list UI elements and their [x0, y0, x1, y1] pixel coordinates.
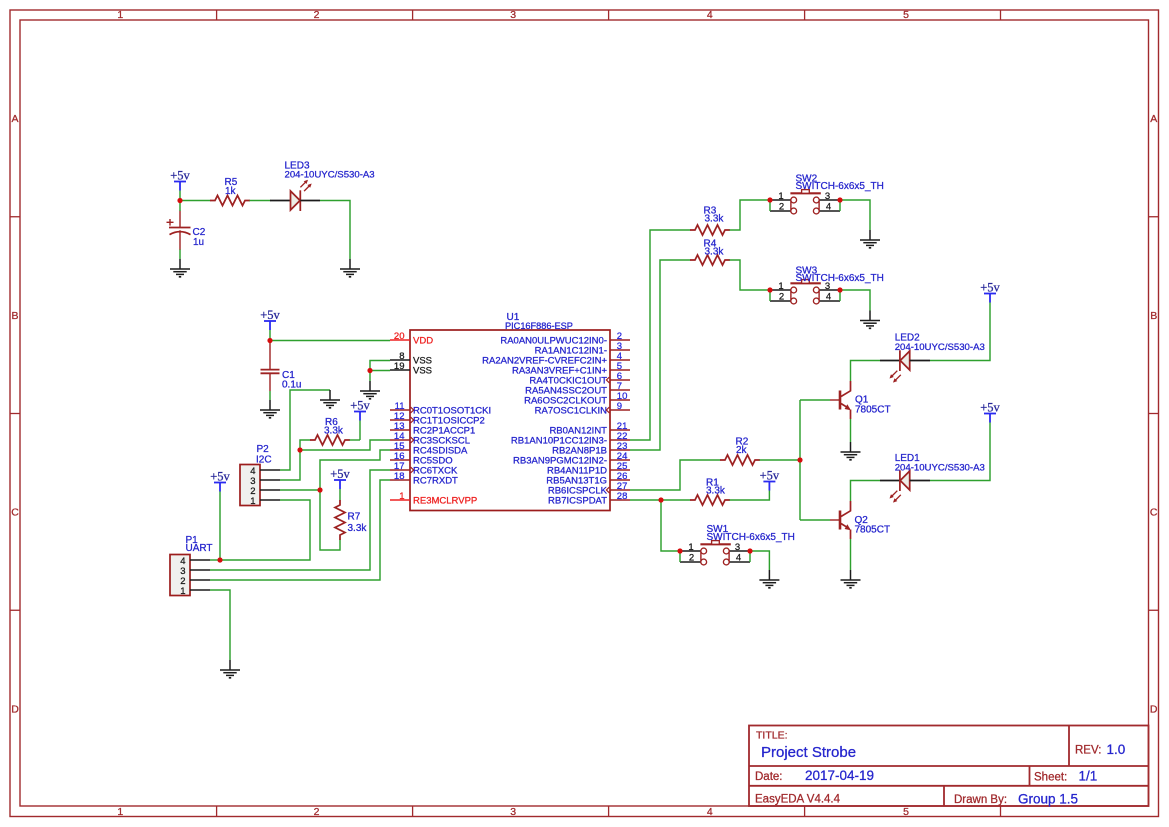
U1 pin 26 RB5AN13T1G — [546, 471, 630, 486]
wire LED3 to ground — [320, 201, 350, 260]
label P2 — [256, 444, 272, 466]
wire R6 to +5v — [350, 439, 361, 441]
U1 pin 1 RE3MCLRVPP — [390, 491, 477, 506]
label LED2 — [895, 333, 985, 354]
wire U1 pin 19 VSS — [370, 370, 390, 372]
U1 pin 10 RA6OSC2CLKOUT — [524, 391, 630, 406]
svg-text:3.3k: 3.3k — [705, 247, 725, 258]
svg-text:SWITCH-6x6x5_TH: SWITCH-6x6x5_TH — [796, 181, 884, 192]
svg-text:REV:: REV: — [1075, 745, 1101, 757]
wire +5v stem to node — [179, 191, 181, 201]
svg-text:RE3MCLRVPP: RE3MCLRVPP — [413, 495, 477, 506]
svg-text:+5v: +5v — [170, 169, 190, 183]
svg-text:204-10UYC/S530-A3: 204-10UYC/S530-A3 — [285, 170, 375, 181]
U1 pin 4 RA2AN2VREF-CVREFC2IN+ — [482, 351, 630, 366]
power flag +5v (LED2) — [980, 281, 1000, 303]
wire SW3 to ground — [840, 290, 870, 311]
wire P1 pin3 TX to U1 pin 17 — [210, 470, 390, 570]
svg-text:1: 1 — [117, 9, 123, 21]
wire node down to SW1 — [661, 500, 680, 551]
svg-text:3.3k: 3.3k — [348, 523, 368, 534]
U1 pin 7 RA5AN4SSC2OUT — [525, 381, 630, 396]
svg-text:204-10UYC/S530-A3: 204-10UYC/S530-A3 — [895, 462, 985, 473]
wire SW1 pins 1-2 — [679, 551, 681, 562]
ground (C2) — [170, 259, 190, 277]
label LED3 — [285, 160, 375, 180]
svg-text:EasyEDA V4.4.4: EasyEDA V4.4.4 — [755, 794, 841, 806]
svg-text:1k: 1k — [225, 186, 237, 197]
svg-text:19: 19 — [394, 361, 405, 372]
U1 pin 18 RC7RXDT — [390, 471, 458, 486]
wire R4 to SW3 — [730, 260, 771, 290]
capacitor C1 0.1u — [261, 341, 302, 392]
junction VSS — [367, 368, 372, 373]
wire U1 pin27 to R2 — [630, 460, 721, 490]
power flag +5v (P1/P2 supply) — [210, 470, 230, 492]
U1 pin 13 RC2P1ACCP1 — [390, 421, 475, 436]
ground (SW3) — [860, 311, 880, 329]
svg-text:D: D — [11, 703, 19, 715]
U1 pin 22 RB1AN10P1CC12IN3- — [511, 431, 630, 446]
wire P1 pin2 RX to U1 pin 18 — [210, 480, 390, 580]
wire R2 to base bus — [760, 459, 801, 461]
svg-text:C: C — [11, 507, 19, 519]
junction SDA node — [317, 487, 322, 492]
wire node to R1 — [661, 499, 691, 501]
frame row labels — [11, 113, 1158, 715]
resistor R6 3.3k — [310, 417, 350, 445]
svg-text:1: 1 — [688, 542, 693, 553]
wire R1 to +5v — [730, 490, 770, 500]
svg-text:TITLE:: TITLE: — [756, 730, 788, 742]
svg-text:2k: 2k — [736, 445, 748, 456]
power flag +5v (R1) — [760, 469, 780, 491]
label LED1 — [895, 453, 985, 473]
junction node +5v/R5/C2 — [177, 198, 182, 203]
junction SW2 pin1 — [767, 197, 772, 202]
power flag +5v (R7) — [330, 467, 350, 489]
U1 pin 17 RC6TXCK — [390, 461, 458, 476]
junction SW2 pin3 — [837, 197, 842, 202]
wire +5v stem R6 — [359, 421, 361, 441]
svg-text:3.3k: 3.3k — [324, 426, 344, 437]
svg-text:1: 1 — [250, 496, 255, 507]
wire SW2 to ground — [840, 200, 870, 230]
junction SW3 pin3 — [837, 287, 842, 292]
wire +5v down to P1 node — [219, 492, 221, 561]
power flag +5v (LED1) — [980, 401, 1000, 423]
power flag +5v (R5/C2 net) — [170, 169, 190, 191]
U1 pin 6 RA4T0CKIC1OUT — [529, 371, 630, 386]
switch SW1 SWITCH-6x6x5_TH — [680, 524, 795, 565]
U1 pin 20 VDD — [390, 331, 433, 346]
wire C2 to ground — [179, 250, 181, 260]
wire Q2 collector to LED1 — [851, 481, 881, 502]
junction SW1 pin1 — [677, 548, 682, 553]
svg-text:0.1u: 0.1u — [282, 380, 301, 391]
svg-text:7805CT: 7805CT — [855, 404, 891, 415]
wire P2 pin3 SCL up — [280, 450, 300, 480]
svg-text:I2C: I2C — [256, 455, 272, 466]
LED LED3 204-10UYC/S530-A3 — [270, 180, 320, 211]
U1 pin 19 VSS — [390, 361, 432, 376]
svg-text:9: 9 — [617, 401, 622, 412]
svg-text:B: B — [1150, 310, 1157, 322]
wire to Q1 base — [800, 399, 830, 401]
resistor R7 3.3k — [335, 500, 367, 540]
label Q1 — [855, 395, 891, 416]
svg-text:3.3k: 3.3k — [705, 213, 725, 224]
wire SW3 pins 3-4 — [839, 290, 841, 301]
svg-text:C: C — [1150, 507, 1158, 519]
wire SW2 pins 1-2 — [769, 200, 771, 211]
LED LED2 204-10UYC/S530-A3 — [880, 350, 930, 382]
svg-text:B: B — [11, 310, 18, 322]
wire SW3 pins 1-2 — [769, 290, 771, 301]
svg-text:A: A — [11, 113, 18, 125]
wire P2 pin4 to ground — [280, 390, 330, 470]
ground (Q2) — [841, 570, 861, 588]
svg-text:204-10UYC/S530-A3: 204-10UYC/S530-A3 — [895, 342, 985, 353]
wire Q1 collector to LED2 — [851, 361, 881, 382]
wire U1 pin 8 VSS — [370, 361, 390, 371]
wire Q1 emitter to ground — [850, 419, 852, 442]
wire U1 pin28 to node — [630, 499, 661, 501]
ground (LED3) — [340, 259, 360, 277]
LED LED1 204-10UYC/S530-A3 — [880, 470, 930, 502]
svg-text:1: 1 — [117, 806, 123, 818]
IC U1 PIC16F886-ESP body — [410, 330, 610, 511]
transistor Q1 7805CT — [830, 381, 851, 419]
resistor R2 2k — [720, 437, 760, 466]
resistor R4 3.3k — [690, 239, 730, 266]
U1 pin 2 RA0AN0ULPWUC12IN0- — [500, 331, 630, 346]
wire +5v to VDD node — [269, 330, 271, 341]
U1 pin 9 RA7OSC1CLKIN — [535, 401, 630, 416]
svg-text:RB7ICSPDAT: RB7ICSPDAT — [548, 495, 607, 506]
svg-text:7805CT: 7805CT — [855, 525, 891, 536]
svg-text:Date:: Date: — [755, 771, 783, 783]
U1 pin 21 RB0AN12INT — [549, 421, 630, 436]
wire LED1 to +5v — [930, 423, 990, 481]
U1 pin 14 RC3SCKSCL — [390, 431, 470, 446]
wire SDA node to R7 — [320, 490, 340, 550]
junction base bus — [797, 457, 802, 462]
ground (C1) — [260, 400, 280, 418]
frame column ticks — [217, 10, 1001, 817]
svg-text:2: 2 — [779, 292, 784, 303]
svg-text:SWITCH-6x6x5_TH: SWITCH-6x6x5_TH — [796, 273, 884, 284]
junction node VDD/C1 — [267, 338, 272, 343]
wire R5 to LED3 — [250, 200, 271, 202]
U1 pin 8 VSS — [390, 351, 432, 366]
U1 pin 24 RB3AN9PGMC12IN2- — [513, 451, 630, 466]
svg-text:UART: UART — [186, 543, 213, 554]
title block — [749, 726, 1149, 807]
capacitor C2 1u (polarized) — [167, 211, 206, 251]
svg-text:1: 1 — [180, 586, 185, 597]
svg-text:A: A — [1150, 113, 1157, 125]
wire C1 to ground — [269, 391, 271, 400]
wire node to C2 — [179, 201, 181, 212]
wire U1 pin22 to R3 — [630, 230, 691, 440]
power flag +5v (VDD) — [260, 308, 280, 330]
junction SCL node — [297, 447, 302, 452]
svg-text:3: 3 — [510, 806, 516, 818]
svg-text:1.0: 1.0 — [1107, 742, 1126, 757]
wire SCL node to U1 pin 14 — [300, 440, 390, 450]
ground (VSS) — [360, 381, 380, 399]
svg-text:28: 28 — [617, 491, 628, 502]
label U1 — [505, 312, 573, 331]
svg-text:18: 18 — [394, 471, 405, 482]
svg-text:4: 4 — [707, 9, 713, 21]
U1 pin 16 RC5SDO — [390, 451, 453, 466]
svg-text:4: 4 — [826, 202, 831, 213]
svg-text:R7: R7 — [348, 512, 361, 523]
svg-text:20: 20 — [394, 331, 405, 342]
connector P1 UART header — [170, 555, 210, 598]
svg-text:VSS: VSS — [413, 365, 432, 376]
U1 pin 27 RB6ICSPCLK — [548, 481, 630, 496]
wire SW1 pins 3-4 — [749, 551, 751, 562]
svg-text:3: 3 — [825, 191, 830, 202]
ground (Q1) — [841, 442, 861, 460]
wire to Q2 base — [800, 519, 830, 521]
svg-text:1: 1 — [399, 491, 404, 502]
wire P2 pin2 SDA — [280, 489, 320, 491]
svg-text:1: 1 — [778, 191, 783, 202]
svg-text:2: 2 — [314, 806, 320, 818]
svg-text:5: 5 — [903, 9, 909, 21]
junction P1 pin4 node — [217, 557, 222, 562]
U1 pin 5 RA3AN3VREF+C1IN+ — [512, 361, 630, 376]
wire base bus vertical — [799, 400, 801, 520]
U1 pin 12 RC1T1OSICCP2 — [390, 411, 485, 426]
junction SW1 pin3 — [747, 548, 752, 553]
svg-text:2: 2 — [779, 202, 784, 213]
svg-text:5: 5 — [903, 806, 909, 818]
svg-text:Group 1.5: Group 1.5 — [1018, 792, 1078, 807]
svg-text:PIC16F886-ESP: PIC16F886-ESP — [505, 321, 573, 331]
resistor R1 3.3k — [690, 477, 730, 505]
wire SW2 pins 3-4 — [839, 200, 841, 211]
svg-text:RC7RXDT: RC7RXDT — [413, 475, 458, 486]
svg-text:1: 1 — [778, 281, 783, 292]
wire U1 pin23 to R4 — [630, 260, 691, 450]
connector P2 I2C header — [240, 465, 280, 508]
frame column labels — [117, 9, 909, 818]
switch SW3 SWITCH-6x6x5_TH — [770, 265, 884, 304]
junction SW3 pin1 — [767, 287, 772, 292]
svg-text:RA7OSC1CLKIN: RA7OSC1CLKIN — [535, 405, 607, 416]
svg-text:D: D — [1150, 703, 1158, 715]
switch SW2 SWITCH-6x6x5_TH — [770, 173, 884, 214]
svg-text:2017-04-19: 2017-04-19 — [805, 768, 874, 783]
wire VSS to ground — [369, 371, 371, 382]
wire P1 pin1 to ground — [210, 590, 230, 660]
svg-text:2: 2 — [689, 553, 694, 564]
U1 pin 11 RC0T1OSOT1CKI — [390, 401, 491, 416]
wire Q2 emitter to ground — [850, 539, 852, 570]
wire SDA node to U1 pin 15 — [320, 450, 390, 490]
wire +5v to R7 — [339, 489, 341, 501]
svg-text:3.3k: 3.3k — [706, 486, 726, 497]
wire P2 pin1 to +5v node — [220, 500, 310, 560]
label P1 — [186, 535, 213, 554]
svg-text:4: 4 — [707, 806, 713, 818]
wire R3 to SW2 — [730, 200, 771, 230]
label Q2 — [855, 515, 891, 536]
ground (SW2) — [860, 230, 880, 248]
svg-text:VDD: VDD — [413, 335, 433, 346]
U1 pin 28 RB7ICSPDAT — [548, 491, 630, 506]
U1 pin 23 RB2AN8P1B — [552, 441, 630, 456]
wire node to P1 pin4 — [210, 559, 220, 561]
frame row ticks — [10, 217, 1159, 611]
svg-text:P2: P2 — [257, 444, 270, 455]
transistor Q2 7805CT — [830, 501, 851, 539]
svg-text:1u: 1u — [193, 237, 204, 248]
ground (SW1) — [759, 570, 779, 588]
U1 pin 3 RA1AN1C12IN1- — [535, 341, 630, 356]
wire LED2 to +5v — [930, 303, 990, 361]
resistor R5 1k — [210, 177, 250, 205]
U1 pin 25 RB4AN11P1D — [547, 461, 630, 476]
wire VDD node to U1 pin 20 — [270, 340, 390, 342]
wire SW1 to ground — [750, 551, 769, 570]
svg-text:Drawn By:: Drawn By: — [954, 794, 1007, 806]
U1 pin 15 RC4SDISDA — [390, 441, 468, 456]
wire node to R5 — [180, 200, 211, 202]
svg-text:3: 3 — [735, 542, 740, 553]
svg-text:3: 3 — [510, 9, 516, 21]
svg-text:Project Strobe: Project Strobe — [761, 744, 856, 761]
wire SCL node to R6 — [300, 440, 311, 450]
svg-text:1/1: 1/1 — [1079, 769, 1098, 784]
svg-text:4: 4 — [826, 292, 831, 303]
ground (P1 pin1) — [220, 660, 240, 678]
ground (P2 pin4) — [320, 390, 340, 408]
svg-text:SWITCH-6x6x5_TH: SWITCH-6x6x5_TH — [707, 532, 795, 543]
junction pin28 node — [658, 497, 663, 502]
resistor R3 3.3k — [690, 206, 730, 236]
svg-text:4: 4 — [736, 553, 741, 564]
svg-text:Sheet:: Sheet: — [1034, 772, 1067, 784]
svg-text:2: 2 — [314, 9, 320, 21]
power flag +5v (R6) — [350, 399, 370, 421]
